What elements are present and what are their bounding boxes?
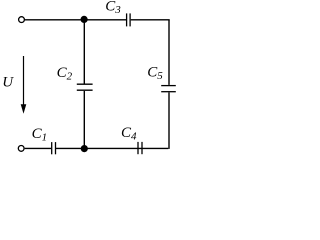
- svg-text:C5: C5: [147, 65, 163, 83]
- svg-text:C1: C1: [32, 126, 48, 144]
- svg-text:C4: C4: [121, 125, 137, 143]
- svg-text:C2: C2: [57, 65, 73, 83]
- svg-text:U: U: [2, 75, 14, 91]
- svg-text:C3: C3: [105, 0, 121, 16]
